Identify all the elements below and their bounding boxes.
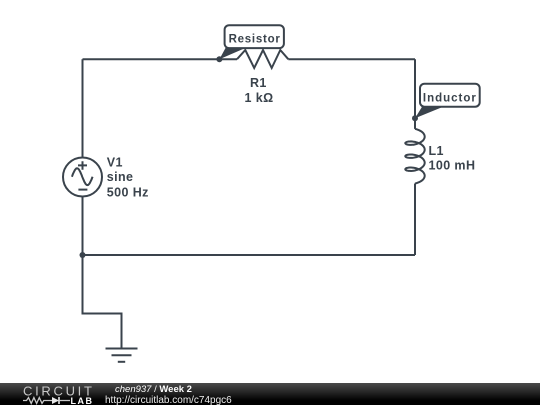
ground symbol bar 3 bbox=[118, 361, 125, 363]
wire top-left horizontal segment bbox=[83, 58, 238, 60]
callout bubble Resistor bbox=[225, 25, 284, 48]
wire left vertical lower (V1 minus terminal to bottom node) bbox=[82, 197, 84, 256]
voltage source V1 circle bbox=[63, 158, 102, 197]
ground symbol bar 2 bbox=[112, 354, 132, 356]
footer text line 1: username and title bbox=[115, 384, 192, 395]
node junction dot at bottom-left (ground node) bbox=[80, 252, 86, 258]
resistor R1 zigzag symbol bbox=[237, 50, 288, 68]
svg-text:Inductor: Inductor bbox=[423, 92, 477, 104]
svg-text:LAB: LAB bbox=[71, 396, 94, 405]
svg-text:1 kΩ: 1 kΩ bbox=[245, 91, 274, 105]
logo diode symbol bbox=[52, 397, 59, 404]
callout bubble Inductor bbox=[420, 84, 480, 107]
footer bar bbox=[0, 383, 540, 405]
voltage source V1 minus sign bbox=[78, 189, 87, 191]
svg-text:R1: R1 bbox=[250, 76, 267, 90]
wire ground branch (node to ground symbol) bbox=[83, 255, 122, 349]
node junction dot at inductor callout tip bbox=[412, 115, 418, 121]
logo resistor zigzag bbox=[23, 398, 52, 404]
svg-text:100 mH: 100 mH bbox=[429, 159, 476, 173]
ground symbol bar 1 bbox=[106, 348, 138, 350]
callout tail for Resistor bubble bbox=[219, 48, 246, 60]
wire right vertical lower (inductor L1 to bottom wire) bbox=[414, 184, 416, 256]
voltage source V1 plus sign bbox=[78, 161, 87, 170]
node junction dot at resistor callout tip bbox=[216, 56, 222, 62]
voltage source V1 sine waveform glyph bbox=[72, 168, 93, 185]
callout tail for Inductor bubble bbox=[415, 106, 445, 118]
wire right vertical upper (top wire to inductor L1) bbox=[414, 59, 416, 129]
inductor L1 coil symbol bbox=[405, 129, 424, 184]
svg-text:500 Hz: 500 Hz bbox=[107, 186, 149, 200]
wire left vertical upper (top node to V1 plus terminal) bbox=[82, 59, 84, 157]
svg-text:Resistor: Resistor bbox=[229, 34, 281, 46]
CircuitLab logo bbox=[21, 383, 101, 405]
svg-text:sine: sine bbox=[107, 170, 134, 184]
svg-text:V1: V1 bbox=[107, 156, 123, 170]
wire bottom horizontal segment bbox=[83, 254, 416, 256]
wire top-right horizontal segment bbox=[288, 58, 415, 60]
svg-text:L1: L1 bbox=[429, 144, 444, 158]
footer text line 2: url bbox=[105, 395, 232, 406]
